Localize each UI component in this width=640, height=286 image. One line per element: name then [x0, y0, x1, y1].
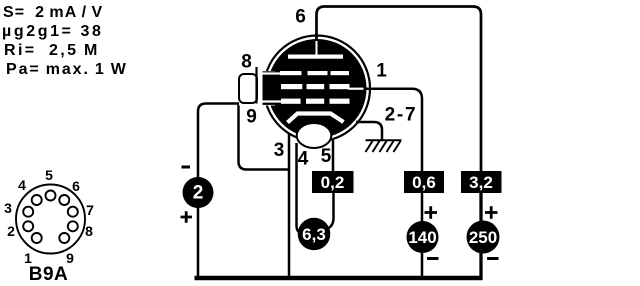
svg-text:1: 1	[376, 61, 387, 82]
cathode (white chevron)	[288, 114, 344, 123]
wire: 0,6 box to 140 source to bottom rail	[421, 192, 424, 279]
plus at battery 2	[181, 211, 193, 222]
svg-text:4: 4	[18, 177, 26, 193]
svg-text:8: 8	[85, 223, 93, 239]
B9A pin number labels	[4, 167, 94, 266]
minus at 250	[487, 257, 499, 260]
grid g2 row (dashes)	[281, 84, 350, 89]
wire: pin 6 anode to top rail, down right side to 3,2 box	[317, 7, 482, 173]
tube V1 interior (black disc)	[268, 39, 367, 138]
pin 8 lead (tab right edge)	[255, 67, 257, 104]
grid lead tab (white notch)	[239, 71, 275, 106]
wire: pins 2-7 to chassis ground	[356, 122, 382, 140]
svg-text:3,2: 3,2	[469, 173, 493, 192]
resistor box 0,2	[312, 171, 354, 193]
anode plate bar	[288, 55, 343, 59]
plus at 140	[425, 206, 438, 218]
svg-text:250: 250	[469, 228, 497, 247]
svg-text:9: 9	[246, 107, 257, 128]
g2 lead to pin 1 (white, inside)	[348, 88, 364, 90]
minus at 140	[427, 257, 439, 260]
heater supply 6,3 V	[298, 218, 331, 251]
g1 lead to tab (white, inside)	[258, 100, 283, 102]
svg-text:S= 2 mA / V: S= 2 mA / V	[3, 4, 103, 21]
B9A pin 1	[32, 233, 42, 243]
svg-text:8: 8	[241, 52, 252, 73]
svg-text:0,2: 0,2	[321, 173, 345, 192]
g3 lead to tab (white, inside)	[258, 72, 283, 74]
wire: heater pin 4 to 6,3 source	[297, 143, 301, 233]
svg-text:140: 140	[408, 228, 436, 247]
tube internals: anode lead (white, inside)	[316, 41, 318, 56]
anode supply 250 V	[467, 221, 500, 254]
heater loop	[297, 123, 332, 148]
svg-text:7: 7	[86, 202, 94, 218]
svg-text:5: 5	[321, 146, 332, 167]
B9A pin 4	[32, 195, 42, 205]
svg-text:4: 4	[298, 149, 309, 170]
svg-text:3: 3	[4, 200, 12, 216]
wire: bottom rail (0 V)	[195, 276, 483, 280]
B9A pin 7	[68, 207, 78, 217]
screen supply 140 V	[407, 221, 439, 253]
svg-text:2: 2	[193, 183, 204, 204]
B9A pin 3	[23, 207, 33, 217]
wire: grid pin to bias battery (left horizontal)	[198, 104, 257, 179]
svg-text:6: 6	[295, 7, 306, 28]
wire: cathode pin 3 to bottom rail	[288, 134, 291, 279]
bias battery 2 V	[183, 177, 214, 208]
svg-text:Pa= max. 1 W: Pa= max. 1 W	[6, 61, 128, 78]
B9A pin 8	[68, 221, 78, 231]
svg-text:6,3: 6,3	[302, 225, 326, 244]
svg-text:3: 3	[274, 140, 285, 161]
resistor box 0,6	[404, 171, 444, 193]
wire: pin 1 (g2) to 0,6 box branch	[363, 89, 422, 172]
tube parameters text	[2, 4, 128, 78]
wire: right branch 3,2 box to 250 source to bottom rail	[479, 192, 482, 279]
grid g3 row (dashes)	[280, 71, 349, 75]
B9A pin 5	[46, 191, 56, 201]
svg-text:5: 5	[45, 167, 53, 183]
tube interior patch at notch	[263, 71, 277, 105]
svg-text:0,6: 0,6	[412, 173, 436, 192]
B9A pin 6	[59, 195, 69, 205]
tube V1 envelope	[264, 36, 370, 142]
B9A pin 2	[23, 221, 33, 231]
svg-text:6: 6	[72, 178, 80, 194]
grid lead tab outline	[239, 74, 257, 103]
svg-text:Ri= 2,5 M: Ri= 2,5 M	[4, 42, 100, 59]
wire: heater pin 5 through 0,2 box to 6,3 source	[327, 140, 334, 229]
plus at 250	[485, 206, 498, 218]
minus at battery 2	[182, 166, 191, 169]
svg-text:2-7: 2-7	[385, 105, 418, 126]
B9A base outline	[16, 185, 85, 254]
chassis ground symbol	[366, 140, 402, 152]
wire: pin 9 down to cathode node	[239, 104, 291, 170]
svg-text:B9A: B9A	[29, 264, 69, 285]
svg-text:2: 2	[7, 223, 15, 239]
B9A pin 9	[59, 233, 69, 243]
svg-text:µg2g1= 38: µg2g1= 38	[2, 23, 104, 40]
wire: bias battery 2 to bottom rail	[197, 207, 200, 279]
resistor box 3,2	[461, 171, 502, 193]
grid g1 row (dashes)	[281, 99, 350, 104]
